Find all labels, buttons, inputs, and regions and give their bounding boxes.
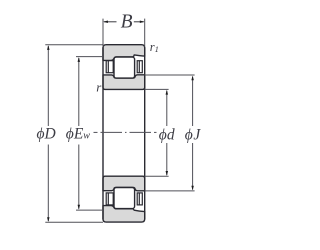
cage bar lower-right (137, 193, 142, 205)
phiJ top extension line (145, 74, 195, 76)
phid bottom extension line (145, 175, 169, 177)
outer ring lower section (103, 206, 145, 223)
outer ring upper section (103, 45, 145, 61)
phiJ dimension line (191, 76, 194, 191)
cage bar lower-left (106, 193, 113, 205)
phid top extension line (145, 88, 169, 90)
cage bar upper-left (106, 61, 113, 73)
left face line (102, 47, 104, 219)
phiEw bottom extension line (76, 209, 103, 211)
phiJ bottom extension line (145, 190, 195, 192)
phiEw top extension line (76, 56, 103, 58)
svg-text:ϕEw: ϕEw (66, 126, 91, 143)
dimension B extension lines (103, 19, 145, 47)
inner ring lower section (103, 176, 145, 191)
roller upper (114, 57, 135, 78)
svg-text:ϕD: ϕD (37, 126, 56, 143)
cage bar upper-right (137, 61, 142, 73)
svg-text:B: B (121, 12, 133, 33)
phiD bottom extension line (45, 221, 103, 223)
phiD top extension line (45, 44, 103, 46)
roller lower (114, 188, 135, 209)
phiEw dimension line (78, 57, 81, 209)
svg-text:r1: r1 (150, 40, 159, 54)
svg-text:r: r (96, 79, 102, 94)
phid dimension line (166, 90, 169, 176)
dimension B line and arrows (103, 21, 144, 24)
center axis (94, 131, 157, 133)
inner ring upper section (103, 75, 145, 90)
svg-text:ϕJ: ϕJ (185, 126, 202, 143)
phiD dimension line (47, 45, 50, 222)
right face line (144, 47, 146, 219)
svg-text:ϕd: ϕd (159, 126, 175, 143)
